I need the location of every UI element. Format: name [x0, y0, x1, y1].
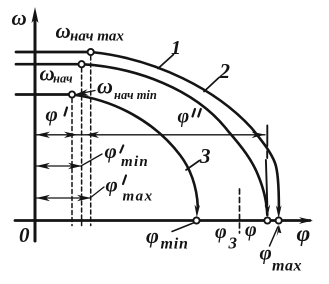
wire: dashed drop line from curve 2 start [81, 68, 83, 226]
node: omega axis arrowhead [32, 7, 39, 23]
svg-text:ω: ω [97, 74, 113, 99]
svg-text:φ: φ [146, 223, 159, 248]
wire: phi' / phi'' dimension line [37, 134, 266, 136]
node: phi reference arrowhead [265, 205, 271, 218]
node: phi'_max arrowhead at axis [36, 195, 50, 201]
svg-text:φ: φ [297, 221, 311, 247]
svg-text:max: max [123, 189, 154, 205]
node: curve 1 end arrowhead [276, 206, 282, 219]
wire: phi'' dimension terminator bar [266, 126, 268, 159]
node: phi'_min arrowhead at axis [36, 163, 50, 169]
wire: dashed drop line from curve 1 start [90, 56, 92, 226]
svg-text:min: min [161, 236, 189, 253]
svg-text:min: min [121, 154, 149, 170]
wire: phi'_max leader arrow [37, 187, 105, 198]
wire: vertical omega axis [34, 14, 37, 241]
svg-text:φ: φ [46, 102, 58, 126]
wire: omega_nach_min level line [16, 93, 69, 96]
svg-text:нач: нач [53, 72, 73, 86]
node: phi_max marker [276, 217, 282, 223]
svg-text:2: 2 [219, 59, 231, 83]
svg-text:φ: φ [215, 221, 227, 243]
curve 2 (omega_nach trajectory) [82, 64, 268, 215]
svg-text:3: 3 [199, 144, 211, 168]
svg-text:ω: ω [12, 6, 27, 30]
node: start marker curve 2 [79, 61, 85, 67]
node: phi_min marker [193, 217, 199, 223]
svg-text:φ: φ [105, 139, 117, 163]
wire: omega_nach level line [16, 63, 79, 66]
wire: dashed drop line from curve 3 start [71, 99, 73, 226]
node: dim arrowhead left of phi'' span [85, 132, 99, 138]
node: dim arrowhead right of phi'' span [252, 132, 266, 138]
node: phi marker [264, 217, 270, 223]
wire: phi'_min leader arrow [37, 154, 103, 166]
svg-text:φ: φ [106, 173, 118, 197]
node: phi'_max arrowhead right [77, 195, 91, 201]
node: dim arrowhead right at first dashed line [64, 132, 78, 138]
svg-text:нач min: нач min [114, 88, 157, 102]
node: dim arrowhead left at axis [36, 132, 50, 138]
node: curve 3 end arrowhead [195, 205, 201, 218]
svg-text:нач max: нач max [70, 29, 124, 45]
node: phi_max leader arrowhead [277, 225, 282, 237]
wire: phi_max label leader [270, 227, 278, 246]
svg-text:3: 3 [228, 234, 238, 253]
node: omega_nach_min leader arrowhead [75, 89, 90, 95]
wire: omega_nach_min label leader [77, 91, 95, 95]
wire: label 1 leader [158, 55, 174, 69]
svg-text:0: 0 [19, 223, 30, 247]
svg-text:max: max [272, 258, 302, 275]
svg-text:φ: φ [260, 241, 272, 265]
wire: dashed tick for phi_3 [239, 189, 241, 233]
wire: phi_min label leader [172, 223, 195, 232]
node: start marker curve 1 [88, 49, 94, 55]
wire: phi reference drop line to marker [266, 160, 267, 205]
curve 3 (omega_nach_min trajectory) [72, 95, 198, 208]
wire: horizontal phi axis [15, 219, 310, 222]
svg-text:ω: ω [56, 19, 71, 43]
svg-text:φ: φ [245, 219, 257, 241]
svg-text:1: 1 [171, 37, 181, 59]
node: phi axis arrowhead [299, 217, 313, 224]
curve 1 (omega_nach_max trajectory) [91, 52, 279, 208]
node: phi'_min arrowhead right [68, 163, 82, 169]
wire: omega_nach_max level line [16, 51, 88, 54]
svg-text:φ: φ [178, 106, 190, 128]
wire: label 2 leader [204, 78, 219, 92]
wire: label 3 leader [186, 161, 200, 171]
node: start marker curve 3 [69, 91, 75, 97]
